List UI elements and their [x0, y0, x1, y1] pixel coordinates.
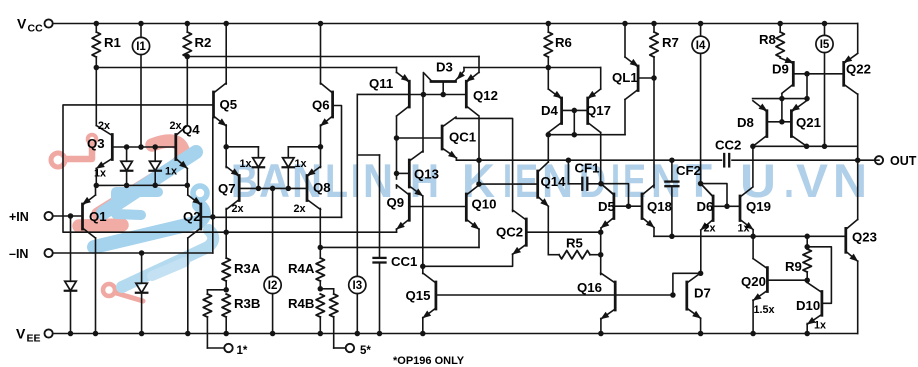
svg-text:R7: R7 [662, 35, 679, 50]
svg-text:Q5: Q5 [220, 97, 238, 112]
wire D6 loop [701, 184, 730, 209]
svg-text:I: I [503, 154, 512, 207]
diode input clamp 1 [65, 213, 77, 336]
node I1 base [138, 144, 144, 150]
terminal +IN [9, 210, 83, 224]
wire -IN riser [212, 217, 214, 253]
transistor Q17 [586, 89, 611, 133]
transistor Q21 [791, 101, 821, 147]
resistor R2 [183, 21, 211, 57]
wire output node line [753, 144, 858, 150]
current source I3 [349, 276, 366, 336]
note OP196 only [393, 355, 465, 367]
svg-text:Q7: Q7 [218, 181, 236, 196]
current source I1 [132, 21, 149, 147]
svg-text:D8: D8 [737, 115, 754, 130]
wire Q5 collector [223, 21, 229, 84]
svg-text:EE: EE [27, 333, 41, 345]
terminal 5* [334, 344, 372, 357]
wire Q13 collector riser [422, 95, 424, 153]
wire Q18 collector riser [653, 78, 655, 188]
wire D8 emitter feed [753, 96, 785, 102]
wire Q7 collector drop [223, 209, 229, 235]
wire QL1 emitter riser [622, 21, 628, 57]
svg-text:2x: 2x [294, 203, 306, 215]
diode D1 1x [94, 144, 132, 188]
current source I4 [692, 21, 709, 184]
wire bus from R1 [94, 65, 397, 71]
resistor R7 [650, 21, 679, 78]
wire D10 base loop [807, 247, 831, 303]
svg-text:2x: 2x [98, 120, 110, 132]
node VBE mult [598, 181, 604, 187]
resistor R3B [222, 294, 260, 336]
transistor Q4 [170, 120, 201, 169]
svg-text:Q20: Q20 [741, 274, 766, 289]
wire Q15/Q16 base bus [436, 294, 673, 296]
wire D6 emitter drop [698, 231, 704, 277]
svg-text:–IN: –IN [9, 247, 28, 261]
transistor D9 [772, 57, 794, 94]
wire D4 mirror tie [546, 110, 625, 137]
transistor Q12 [466, 72, 498, 116]
node R3 mid [223, 287, 229, 293]
svg-text:R8: R8 [759, 32, 776, 47]
svg-text:Q10: Q10 [472, 197, 497, 212]
transistor Q11 [369, 72, 410, 116]
svg-text:1.5x: 1.5x [754, 304, 775, 316]
wire Q15 collector [422, 266, 424, 273]
svg-text:R3B: R3B [234, 296, 260, 311]
terminal -IN [9, 247, 213, 261]
svg-text:CC2: CC2 [715, 138, 741, 153]
wire D8 base tie [781, 99, 783, 122]
wire D7 emitter [698, 319, 704, 337]
wire D6 collector diag [701, 184, 714, 197]
svg-text:I2: I2 [268, 280, 278, 292]
svg-text:R4A: R4A [288, 261, 315, 276]
svg-text:Q8: Q8 [313, 180, 331, 195]
wire Q7/Q8 base bus [239, 187, 307, 189]
transistor D7 [687, 273, 711, 319]
svg-text:OUT: OUT [890, 154, 917, 168]
transistor Q10 [466, 185, 496, 230]
capacitor CC1 [357, 155, 417, 336]
node D6 base [698, 181, 704, 187]
svg-text:R3A: R3A [234, 261, 261, 276]
wire QC1 collector [456, 118, 513, 211]
transistor Q16 [577, 273, 615, 319]
wire Q19 base [727, 205, 740, 207]
wire Q10 emitter drop [478, 229, 480, 247]
svg-text:1x: 1x [738, 223, 750, 235]
transistor D10 [796, 283, 826, 332]
svg-text:Q9: Q9 [387, 195, 405, 210]
transistor QC1 [442, 117, 476, 158]
svg-text:D7: D7 [694, 286, 711, 301]
resistor R3A [222, 232, 261, 290]
resistor R4A [288, 247, 325, 288]
transistor D5 [598, 184, 615, 229]
transistor Q9 [387, 185, 410, 230]
transistor D4 [541, 89, 562, 133]
wire D5 base [614, 205, 629, 207]
transistor Q13 [409, 151, 439, 196]
diode D2 1x [149, 144, 177, 188]
wire D6 base [713, 205, 727, 207]
wire Q22 emitter riser [857, 24, 859, 54]
svg-text:Q22: Q22 [846, 62, 871, 77]
diode 1x at Q8 [283, 147, 321, 191]
current source I2 [264, 276, 281, 336]
svg-text:Q2: Q2 [183, 209, 201, 224]
resistor R1 [92, 21, 121, 68]
transistor Q3 [87, 120, 112, 169]
wire Q2 base [201, 216, 213, 218]
wire QC2 emitter [423, 254, 513, 266]
svg-text:.: . [784, 154, 794, 207]
wire Q6 emitter [318, 125, 324, 150]
svg-text:D3: D3 [436, 60, 453, 75]
wire Q6 collector [318, 21, 324, 84]
svg-text:Q19: Q19 [746, 199, 771, 214]
svg-text:Q14: Q14 [541, 174, 567, 189]
svg-text:5*: 5* [360, 345, 371, 357]
wire D5 collector diag [601, 184, 614, 195]
wire Q23 collector riser [857, 160, 859, 219]
wire Q19 collector riser [752, 146, 754, 186]
wire QC2 base [526, 231, 600, 233]
svg-text:2x: 2x [704, 223, 716, 235]
svg-text:Q17: Q17 [586, 103, 611, 118]
node Q2 base [210, 214, 216, 220]
wire emitter line [94, 183, 191, 189]
wire Q14 collector riser [547, 135, 549, 162]
terminal VEE [16, 326, 53, 345]
svg-text:R2: R2 [195, 35, 212, 50]
svg-text:R6: R6 [555, 35, 572, 50]
svg-text:Q6: Q6 [312, 98, 330, 113]
wire I3 riser [356, 94, 358, 276]
wire Q11/Q12 base bus [409, 94, 466, 96]
svg-text:D5: D5 [598, 199, 615, 214]
resistor R5 [548, 236, 603, 259]
resistor R8 [759, 21, 784, 58]
transistor D3 [421, 60, 465, 98]
wire Q19 emitter drop [750, 231, 756, 240]
svg-text:D9: D9 [772, 62, 789, 77]
wire Q4 emitter drop [186, 169, 188, 186]
svg-text:Q18: Q18 [647, 199, 672, 214]
diode 1x at Q7 [226, 147, 264, 191]
transistor Q23 [846, 219, 877, 261]
vcc rail [49, 23, 858, 25]
svg-text:QL1: QL1 [612, 70, 638, 85]
svg-text:1x: 1x [165, 166, 177, 178]
wire Q7C to Q9E [226, 231, 396, 233]
svg-text:CC: CC [28, 23, 44, 35]
wire D10 collector riser [806, 280, 808, 282]
svg-text:D4: D4 [541, 103, 559, 118]
transistor Q19 [738, 187, 771, 235]
terminal OUT [875, 154, 917, 168]
diode input clamp 2 [136, 250, 148, 336]
svg-text:V: V [16, 326, 26, 342]
capacitor CF1 [566, 157, 601, 189]
current source I5 [816, 21, 833, 147]
svg-text:Q12: Q12 [473, 88, 498, 103]
wire Q23 emitter drop [857, 261, 859, 334]
wire QL1 base [638, 75, 657, 81]
wire Q22 collector drop [855, 94, 861, 163]
wire R4A to Q10E [320, 246, 479, 248]
wire QL1 collector drop [624, 100, 626, 135]
svg-text:CC1: CC1 [391, 254, 417, 269]
transistor Q18 [642, 185, 672, 228]
transistor Q6 [312, 83, 333, 126]
transistor Q5 [214, 83, 238, 126]
svg-text:I3: I3 [353, 280, 363, 292]
wire output bus [456, 159, 879, 161]
wire Q16 emitter [598, 319, 604, 337]
transistor QL1 [612, 57, 639, 100]
terminal 1* [207, 344, 247, 357]
wire D8 collector drop [750, 144, 756, 150]
terminal VCC [17, 16, 53, 35]
resistor R4 parallel [320, 289, 338, 348]
svg-text:N: N [833, 154, 867, 207]
transistor QC2 [496, 210, 526, 255]
svg-text:I5: I5 [820, 39, 830, 51]
wire Q2 emitter [187, 185, 189, 195]
transistor Q22 [843, 53, 871, 94]
capacitor CF2 [665, 157, 701, 239]
wire D8/Q21 base [767, 119, 792, 125]
wire Q20 emitter [750, 300, 756, 336]
svg-text:Q13: Q13 [414, 167, 439, 182]
svg-text:R5: R5 [566, 236, 583, 251]
wire Q6 base [333, 106, 342, 218]
svg-text:D6: D6 [697, 199, 714, 214]
svg-text:Q11: Q11 [369, 76, 393, 91]
wire Q9/Q10 base bus [409, 206, 466, 208]
svg-text:I: I [351, 154, 360, 207]
wire to D5/Q18 bases [601, 184, 631, 209]
wire Q20 base [767, 279, 807, 281]
svg-text:Q15: Q15 [406, 288, 431, 303]
wire Q13 emitter drop [420, 196, 426, 269]
wire Q17 emitter riser [600, 68, 602, 90]
wire Q14 base line [479, 183, 538, 185]
wire VBE chain [600, 232, 602, 274]
wire D4 collector drop [547, 133, 549, 135]
wire Q4 collector [186, 57, 188, 126]
wire Q11 base left [357, 93, 409, 95]
wire D10 emitter [804, 324, 810, 337]
wire Q10 collector [478, 183, 480, 186]
resistor R9 [785, 236, 811, 283]
wire Q3/Q4 base bus [112, 146, 176, 148]
wire Q8 collector drop [318, 209, 324, 251]
wire bus from R2 [185, 54, 479, 60]
wire Q5 emitter [223, 125, 229, 150]
wire Q2 collector to VEE [185, 238, 191, 336]
svg-text:Q23: Q23 [852, 230, 877, 245]
svg-text:Q21: Q21 [796, 115, 821, 130]
wire Q9 emitter drop [396, 229, 398, 232]
resistor R4B [288, 294, 325, 336]
node R9 bus [804, 234, 810, 240]
wire D5 emitter drop [598, 228, 604, 235]
svg-text:QC1: QC1 [449, 130, 476, 145]
wire Q15 emitter [420, 318, 426, 337]
svg-text:Q16: Q16 [577, 280, 602, 295]
wire Q1 collector to VEE [93, 238, 99, 336]
resistor R6 [544, 21, 572, 68]
wire Q14 emitter drop [547, 206, 549, 254]
wire D7 loop [670, 273, 700, 297]
svg-text:E: E [515, 154, 538, 207]
wire R6 emitter bus [464, 65, 601, 71]
svg-text:Q3: Q3 [87, 136, 105, 151]
svg-text:Q1: Q1 [89, 209, 107, 224]
wire D9 base tie [804, 74, 810, 102]
wire D9/Q22 base [793, 71, 843, 77]
wire D7 collector riser [700, 272, 702, 275]
resistor R3 parallel [203, 290, 226, 348]
svg-text:I1: I1 [136, 41, 146, 53]
transistor Q2 [183, 195, 201, 238]
svg-text:R1: R1 [104, 35, 121, 50]
node R4 mid [318, 286, 324, 292]
svg-text:+IN: +IN [9, 210, 29, 224]
svg-text:R9: R9 [785, 259, 802, 274]
transistor Q14 [538, 162, 566, 207]
svg-text:1x: 1x [814, 320, 826, 332]
wire Q20 collector riser [752, 236, 754, 258]
wire D4/Q17 base bus [562, 108, 588, 114]
svg-text:D10: D10 [796, 298, 820, 313]
wire Q11 collector chain [394, 117, 400, 180]
wire Q8 emitter riser [320, 147, 322, 168]
wire D4 emitter riser [547, 68, 549, 90]
vee rail [49, 333, 858, 335]
wire QC1 base [394, 135, 442, 141]
wire Q5 loop left [63, 105, 226, 232]
wire Q18 emitter drop [653, 228, 655, 236]
wire Q12 collector drop [476, 118, 482, 187]
capacitor CC2 [715, 138, 741, 167]
wire Q13 base [397, 172, 410, 174]
wire I2 drop [270, 186, 276, 277]
svg-text:1x: 1x [240, 158, 252, 170]
transistor D6 [697, 184, 716, 235]
wire Q11 emitter riser [396, 68, 398, 73]
wire Q2base to Q6base [213, 216, 342, 218]
wire Q1 emitter [95, 185, 97, 195]
svg-text:V: V [796, 154, 829, 207]
svg-text:CF1: CF1 [575, 161, 600, 176]
svg-text:2x: 2x [232, 203, 244, 215]
wire Q21 collector drop [804, 144, 810, 150]
svg-text:Q4: Q4 [182, 122, 200, 137]
svg-text:I4: I4 [696, 40, 706, 52]
wire Q18 base [629, 205, 643, 207]
wire Q3 collector [95, 68, 97, 126]
transistor Q7 [218, 167, 244, 216]
svg-text:V: V [17, 16, 27, 32]
wire Q3 emitter drop [95, 169, 97, 186]
transistor Q8 [294, 167, 331, 216]
svg-text:CF2: CF2 [676, 163, 701, 178]
svg-text:2x: 2x [170, 120, 182, 132]
svg-text:R4B: R4B [288, 296, 314, 311]
wire driver bus [654, 235, 846, 237]
transistor Q15 [406, 273, 436, 318]
wire Q5 bar drop [212, 118, 214, 217]
transistor D8 [737, 101, 767, 147]
svg-text:*OP196 ONLY: *OP196 ONLY [393, 355, 465, 367]
wire QC1 emitter [455, 158, 457, 160]
wire D9 collector drop [782, 94, 807, 99]
wire Q17 collector drop [600, 133, 602, 184]
svg-text:QC2: QC2 [496, 225, 523, 240]
svg-text:1*: 1* [237, 345, 248, 357]
wire Q12 emitter riser [478, 57, 480, 73]
wire Q7 emitter riser [225, 147, 227, 168]
transistor Q1 [82, 195, 107, 238]
svg-text:1x: 1x [295, 158, 307, 170]
transistor Q20 [741, 259, 775, 316]
wire Q9 collector [396, 185, 398, 188]
